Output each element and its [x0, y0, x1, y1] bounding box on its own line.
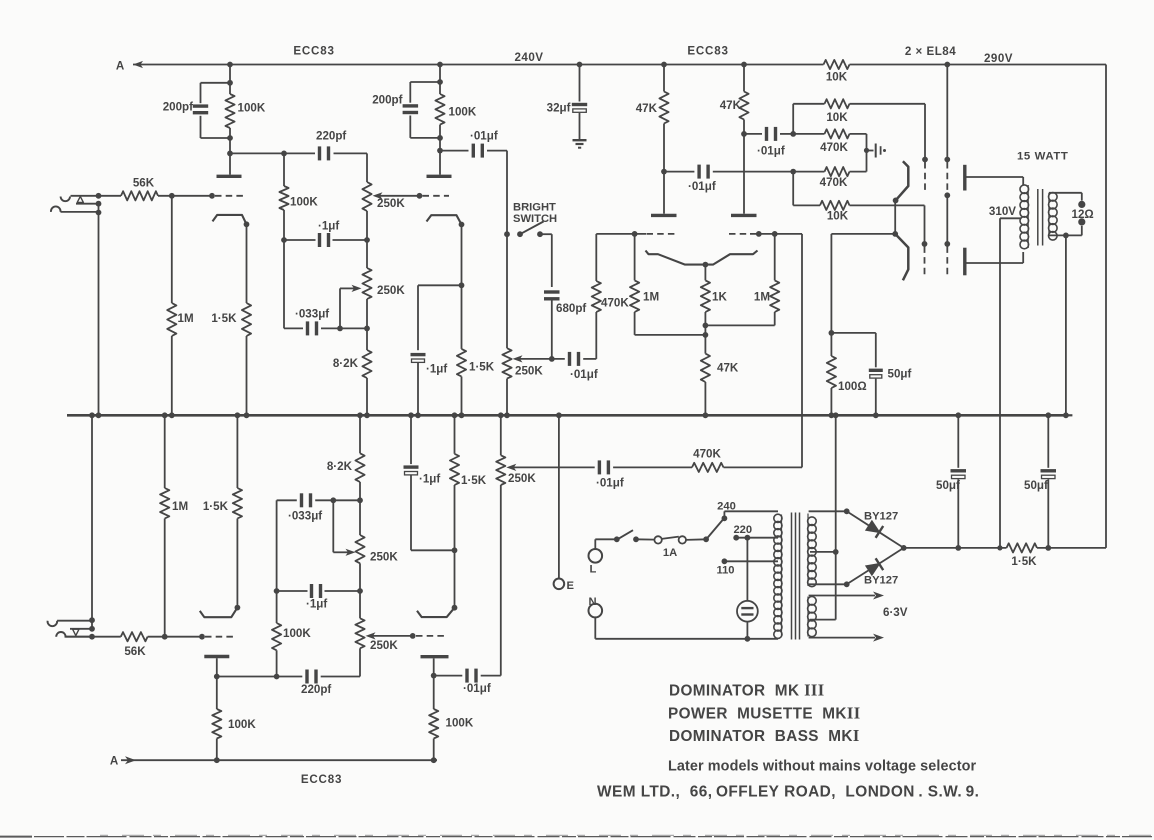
wire screen supply — [946, 65, 948, 159]
svg-text:310V: 310V — [989, 205, 1016, 218]
resistor 10K (HT dropper) — [824, 60, 850, 69]
wire heater centre tap — [810, 619, 836, 621]
svg-text:·01μf: ·01μf — [463, 682, 491, 695]
wire B2 drop to 10K grid2 — [792, 172, 794, 206]
wire primary top 240 tap — [724, 510, 778, 512]
junction 1.5K V2a at rail — [459, 412, 465, 418]
wire .033 to pot lower — [333, 499, 360, 501]
svg-text:·01μf: ·01μf — [570, 368, 598, 381]
wire 56K to grid lower — [148, 636, 202, 638]
svg-text:100Ω: 100Ω — [838, 380, 867, 393]
wire V1b anode lead — [216, 658, 218, 676]
junction HT winding bottom — [844, 581, 850, 587]
wire heater bottom 6.3V — [809, 637, 875, 639]
wire fuse to selector — [686, 538, 706, 541]
wire OT secondary top — [1049, 192, 1082, 194]
svg-text:A: A — [110, 755, 119, 768]
junction rail / earth lead — [556, 412, 562, 418]
jack J1 shorting contact (triangle) — [77, 196, 83, 202]
wire J2 ground rise — [91, 415, 93, 629]
wire bottom A rail — [121, 759, 437, 761]
capacitor 220pf (top) — [318, 146, 321, 160]
wire EL84#2 anode to OT — [965, 262, 1023, 264]
wire J1 ground drop — [98, 204, 100, 416]
pot wiper arrow 250K treble — [373, 192, 383, 199]
svg-text:8·2K: 8·2K — [327, 460, 353, 473]
resistor 100Ω (EL84 cathode) — [830, 333, 832, 356]
svg-text:250K: 250K — [508, 472, 536, 485]
junction 1M lower at rail — [162, 412, 168, 418]
wire V2a anode lead — [439, 151, 441, 175]
wire 1M left bottom — [635, 334, 706, 336]
wire .033 to 8.2K — [340, 327, 367, 329]
svg-text:10K: 10K — [826, 111, 848, 124]
junction V1 anode node — [227, 151, 233, 157]
junction top rail / V2a plate load — [437, 62, 443, 68]
junction bright switch right — [537, 231, 543, 237]
wire cathode net corner lower — [411, 549, 455, 551]
junction 310V feed — [997, 545, 1002, 550]
junction cathode net top — [459, 282, 465, 288]
inductor mains heater secondary — [808, 597, 817, 606]
junction 100K / .1uf — [281, 237, 287, 243]
junction bright switch left — [504, 231, 510, 237]
potentiometer 250K (top volume) — [506, 234, 508, 348]
wire V2a plate load top bar — [410, 81, 440, 83]
resistor 100K (V2b plate) — [433, 676, 435, 709]
pot wiper arrow lower treble — [366, 632, 376, 639]
wire L to switch — [594, 539, 596, 549]
wire top HT rail 240V — [133, 64, 824, 66]
wire bass wiper lower — [332, 500, 334, 552]
capacitor 50μf (cathode bypass) — [869, 369, 883, 372]
svg-text:240V: 240V — [514, 51, 543, 64]
wire smoothing to 290V edge — [1037, 547, 1106, 549]
junction V1 load top bar — [227, 80, 233, 86]
resistor 1M (lower) — [164, 415, 166, 488]
svg-text:100K: 100K — [449, 106, 477, 119]
capacitor 680pf — [544, 290, 560, 293]
tube EL84#2 cathode — [895, 234, 908, 280]
junction V2b cathode — [452, 605, 458, 611]
tube V3b grid (dashed) — [729, 233, 750, 235]
junction PI tail at rail — [703, 412, 709, 418]
tube V3b cathode — [705, 251, 757, 265]
tube EL84#2 screen (dashed) — [944, 241, 950, 247]
potentiometer 250K (lower bass) — [359, 500, 361, 535]
junction 680pf / wiper line — [549, 356, 555, 362]
svg-text:15 WATT: 15 WATT — [1017, 151, 1068, 163]
tube EL84#1 screen (dashed) — [944, 157, 950, 163]
capacitor ·1μf (lower tone) — [277, 590, 308, 592]
svg-text:1·5K: 1·5K — [211, 312, 237, 325]
svg-text:100K: 100K — [290, 196, 318, 209]
junction HT CT ground — [833, 549, 839, 555]
svg-text:100K: 100K — [228, 718, 256, 731]
tube V2b cathode — [417, 608, 455, 617]
terminal speaker - — [1078, 218, 1085, 225]
junction 50uf#2 bottom — [955, 545, 961, 551]
junction top rail / 47K V3b — [741, 62, 747, 68]
resistor 8·2K (lower) — [359, 415, 361, 453]
junction rail end (OT tap) — [1063, 412, 1069, 418]
junction volume pot top at rail — [504, 412, 510, 418]
capacitor 50μf (reservoir) — [957, 415, 959, 468]
wire common cathode link — [894, 200, 896, 234]
svg-text:47K: 47K — [720, 99, 742, 112]
svg-text:1·5K: 1·5K — [1011, 555, 1037, 568]
wire 680pf to wiper line — [551, 299, 553, 359]
tube V1b anode — [204, 655, 229, 658]
junction .1uf cathode cap at rail — [415, 412, 421, 418]
svg-text:·01μf: ·01μf — [688, 180, 716, 193]
resistor 470K (EL84#2 grid leak) — [793, 171, 824, 173]
svg-text:DOMINATOR MK III: DOMINATOR MK III — [669, 681, 825, 700]
tube EL84#2 anode — [963, 248, 966, 276]
arrowhead node A top — [133, 61, 143, 68]
svg-text:·01μf: ·01μf — [470, 130, 498, 143]
wire V2a plate load bottom bar — [410, 137, 440, 139]
lamp neon indicator — [746, 538, 748, 601]
junction J1 tip — [96, 193, 102, 199]
switch mains — [614, 536, 620, 542]
pot wiper arrow lower volume — [506, 464, 516, 471]
resistor 100K (V2a grid, top) — [283, 153, 285, 186]
svg-text:·1μf: ·1μf — [306, 598, 327, 611]
junction V2b grid — [410, 633, 416, 639]
resistor 1·5K (V1b cathode) — [236, 415, 238, 488]
junction V1 cathode — [244, 221, 250, 227]
terminal speaker + — [1078, 201, 1085, 208]
tube V2a anode — [427, 175, 452, 178]
svg-text:56K: 56K — [124, 645, 146, 658]
pot wiper arrow 250K bass — [352, 285, 362, 292]
junction 1K bottom — [703, 323, 709, 329]
svg-text:8·2K: 8·2K — [333, 357, 359, 370]
tube V1 anode — [217, 175, 242, 178]
svg-text:L: L — [590, 564, 597, 576]
jack J2 sleeve hook — [48, 621, 58, 626]
svg-text:50μf: 50μf — [936, 479, 960, 492]
capacitor ·01μf (NFB) — [613, 466, 692, 468]
wire 10K grid2 to EL84#2 grid — [850, 204, 925, 206]
tube EL84#1 anode — [963, 165, 966, 191]
junction rail / 1.5K V2b — [452, 412, 458, 418]
wire J2 sleeve line — [57, 620, 92, 622]
wire EL84#1 anode to OT — [965, 176, 1023, 178]
resistor 1·5K (V2a cathode) — [461, 285, 463, 349]
wire screen link — [946, 195, 948, 242]
svg-text:BRIGHT: BRIGHT — [513, 201, 556, 213]
capacitor ·01μf (V2b coupling) — [434, 675, 463, 677]
svg-text:BY127: BY127 — [864, 575, 898, 587]
svg-text:WEM LTD., 66, OFFLEY ROAD, L: WEM LTD., 66, OFFLEY ROAD, LONDON . S.W.… — [597, 784, 979, 801]
junction 56K / 1M — [169, 193, 175, 199]
junction 1.5K at rail — [244, 412, 250, 418]
svg-text:250K: 250K — [377, 284, 405, 297]
fuse 1A — [654, 536, 661, 543]
tube EL84#1 grid (dashed) — [922, 157, 928, 163]
junction J1 at ground rail — [96, 412, 102, 418]
svg-text:Later models without mains vol: Later models without mains voltage selec… — [668, 759, 976, 775]
junction coupling node B1 — [790, 131, 796, 137]
svg-text:32μf: 32μf — [547, 102, 571, 115]
junction coupling node B2 — [790, 169, 796, 175]
resistor 100K (V1b plate) — [216, 677, 218, 710]
junction rail / 50uf#2 — [955, 412, 961, 418]
junction BY127 output — [901, 545, 907, 551]
tube V2b anode — [421, 655, 449, 658]
capacitor ·01μf (V2a coupling) — [440, 150, 469, 152]
node 240 tap — [722, 515, 728, 521]
wire NFB corner — [724, 466, 803, 468]
svg-text:ECC83: ECC83 — [687, 45, 728, 58]
capacitor 32μf (HT filter) — [579, 65, 581, 102]
wire V2a cathode drop — [461, 225, 463, 286]
wire 470K leaks junction drop — [866, 134, 868, 172]
terminal E (earth) — [554, 579, 565, 590]
wire 290V right edge drop — [1105, 65, 1107, 548]
svg-text:470K: 470K — [693, 448, 721, 461]
capacitor C 200pf (V1) — [200, 83, 202, 103]
svg-text:250K: 250K — [377, 197, 405, 210]
resistor 47K (V3a plate) — [663, 65, 665, 92]
tube V1b grid (dashed) — [205, 636, 236, 638]
resistor 1M (PI right) — [774, 234, 776, 281]
tube V3a grid (dashed) — [647, 233, 678, 235]
svg-text:220pf: 220pf — [316, 130, 346, 143]
diode BY127 #1 — [847, 511, 904, 548]
svg-text:ECC83: ECC83 — [301, 773, 342, 786]
svg-text:2 × EL84: 2 × EL84 — [905, 45, 956, 58]
resistor 1·5K (HT smoothing) — [1007, 543, 1038, 552]
junction V1 grid — [209, 193, 215, 199]
transformer OT core — [1037, 189, 1039, 246]
svg-text:BY127: BY127 — [864, 511, 898, 523]
wire OT centre tap 310V — [1000, 217, 1021, 219]
wire cathode to bias net — [831, 233, 895, 235]
svg-text:6·3V: 6·3V — [883, 606, 908, 619]
svg-text:470K: 470K — [820, 176, 848, 189]
svg-text:200pf: 200pf — [372, 94, 402, 107]
wire PI grid line — [596, 233, 646, 235]
tube V1 cathode — [213, 215, 247, 224]
junction J2 tip — [89, 634, 95, 640]
tube EL84#1 cathode — [896, 161, 909, 200]
svg-text:10K: 10K — [826, 71, 848, 84]
wire J1 contact line — [76, 203, 99, 205]
wire bias to 50uf — [831, 332, 875, 334]
svg-text:N: N — [589, 596, 597, 608]
junction top rail / 47K V3a — [661, 62, 667, 68]
node 110 tap — [722, 558, 728, 564]
junction J1 contact — [96, 201, 102, 207]
resistor 470K (NFB) — [692, 463, 724, 472]
resistor 470K (PI grid, vertical) — [595, 312, 597, 359]
svg-text:1M: 1M — [172, 500, 188, 513]
junction V3b grid wire — [756, 231, 762, 237]
junction J2 sleeve — [89, 617, 95, 623]
resistor 470K (EL84#1 grid leak) — [793, 133, 824, 135]
junction V1b anode node — [214, 674, 220, 680]
junction .033uf / bass wiper — [337, 326, 343, 332]
potentiometer 250K (top bass) — [366, 240, 368, 268]
svg-text:100K: 100K — [446, 717, 474, 730]
resistor 100K (V1 plate) — [225, 94, 234, 128]
svg-text:1M: 1M — [178, 312, 194, 325]
junction rail / 50uf#3 — [1045, 412, 1051, 418]
svg-text:50μf: 50μf — [1024, 479, 1048, 492]
svg-text:·01μf: ·01μf — [596, 477, 624, 490]
svg-text:SWITCH: SWITCH — [513, 213, 557, 225]
capacitor ·1μf (V2a cathode) — [411, 353, 426, 356]
inductor mains HT secondary — [808, 517, 817, 526]
ground chassis (32uf) — [579, 113, 581, 140]
capacitor ·033μf (top) — [284, 327, 303, 329]
resistor 8·2K (top) — [366, 328, 368, 350]
wire OT secondary bottom — [1049, 234, 1082, 236]
wire V1 plate load bottom bar — [201, 137, 231, 139]
svg-text:47K: 47K — [717, 362, 739, 375]
junction 100R at rail — [829, 412, 835, 418]
svg-text:220: 220 — [733, 524, 752, 536]
resistor 10K (EL84#2 grid stopper) — [820, 201, 850, 210]
svg-text:10K: 10K — [827, 210, 849, 223]
tube V1b cathode — [200, 608, 238, 618]
wire J2 contact line — [70, 628, 92, 630]
tube V3a cathode — [646, 251, 706, 265]
junction lower .1uf left — [274, 588, 280, 594]
jack J1 tip hook — [61, 197, 70, 202]
wire HT centre tap — [810, 551, 836, 553]
svg-text:56K: 56K — [133, 177, 155, 190]
junction 220 / neon — [745, 535, 751, 541]
junction 50uf cathode at rail — [873, 412, 879, 418]
wire V1b anode line — [217, 676, 302, 678]
resistor 100K (V2a plate) — [435, 94, 444, 125]
junction V2a grid — [417, 193, 423, 199]
resistor 1·5K (V1 cathode) — [246, 224, 248, 303]
wire HT winding bottom lead — [809, 583, 847, 585]
wire bass wiper to .033uf — [339, 288, 341, 328]
wire coupling to bright switch — [506, 151, 508, 235]
svg-text:POWER MUSETTE MKII: POWER MUSETTE MKII — [668, 704, 861, 723]
capacitor ·01μf (V3b coupling) — [744, 133, 762, 135]
junction lower .1uf right — [357, 588, 363, 594]
junction treble pot / .1uf — [364, 237, 370, 243]
svg-text:·033μf: ·033μf — [295, 308, 329, 321]
svg-text:1A: 1A — [663, 547, 677, 559]
svg-text:E: E — [567, 580, 575, 592]
capacitor ·1μf (top tone) — [284, 239, 316, 241]
capacitor ·033μf (lower) — [277, 499, 297, 501]
svg-text:1·5K: 1·5K — [469, 361, 495, 374]
svg-text:250K: 250K — [370, 639, 398, 652]
wire main ground rail — [67, 414, 1066, 417]
svg-text:47K: 47K — [636, 102, 658, 115]
svg-text:1M: 1M — [754, 291, 770, 304]
resistor 10K (EL84#1 grid stopper) — [825, 99, 850, 108]
junction J2 contact — [89, 626, 95, 632]
wire V3b anode lead — [743, 134, 745, 214]
junction V1b plate at A rail — [214, 757, 220, 763]
wire HT output line — [904, 547, 1007, 549]
junction HT winding top — [844, 508, 850, 514]
capacitor ·01μf (V3a coupling) — [664, 171, 694, 173]
resistor 47K (PI tail) — [704, 325, 706, 353]
diode BY127 #2 — [847, 548, 904, 584]
svg-text:ECC83: ECC83 — [293, 45, 334, 58]
svg-text:1M: 1M — [643, 291, 659, 304]
pot wiper arrow lower bass — [346, 549, 356, 556]
wire HT winding top lead — [809, 510, 847, 512]
switch BRIGHT lever — [520, 222, 544, 235]
junction screen rail top — [944, 62, 950, 68]
tube V3b anode — [731, 214, 757, 217]
tube V1 grid (dashed) — [215, 195, 245, 197]
svg-text:·1μf: ·1μf — [318, 220, 339, 233]
capacitor ·1μf (V2b cathode) — [410, 415, 412, 464]
jack J2 tip hook — [56, 632, 65, 637]
resistor 47K (V3b plate) — [743, 65, 745, 92]
svg-text:250K: 250K — [370, 551, 398, 564]
svg-text:680pf: 680pf — [556, 302, 586, 315]
svg-text:200pf: 200pf — [163, 101, 193, 114]
svg-text:220pf: 220pf — [301, 683, 331, 696]
resistor 56K (top input) — [121, 191, 158, 200]
svg-text:·01μf: ·01μf — [757, 145, 785, 158]
wire J1 sleeve line — [61, 211, 99, 213]
svg-text:250K: 250K — [515, 365, 543, 378]
potentiometer 250K (top treble) — [366, 153, 368, 182]
wire bright switch to 680pf — [540, 233, 552, 235]
svg-text:240: 240 — [717, 501, 736, 513]
junction V2a anode node — [437, 148, 443, 154]
junction EL84 cathodes — [892, 231, 898, 237]
junction screen mid — [944, 192, 950, 198]
capacitor C 200pf (V2a) — [409, 82, 411, 103]
tube V2b grid (dashed) — [416, 635, 448, 637]
junction J1 sleeve — [96, 210, 102, 216]
svg-text:100K: 100K — [283, 627, 311, 640]
junction top rail / 32uf — [577, 62, 583, 68]
junction rail / .1uf lower — [408, 412, 414, 418]
junction heater CT at rail — [833, 412, 839, 418]
junction rail / 8.2K lower — [357, 412, 363, 418]
wire 100K to .033uf — [283, 240, 285, 328]
svg-text:1K: 1K — [712, 291, 727, 304]
svg-text:1·5K: 1·5K — [461, 474, 487, 487]
wire V3b grid to 1M right — [750, 233, 802, 235]
junction 8.2K at rail — [364, 412, 370, 418]
junction 1M at rail — [169, 412, 175, 418]
wire J2 tip link — [65, 636, 93, 638]
resistor 1K (PI cathode) — [704, 265, 706, 281]
junction V1b grid — [199, 634, 205, 640]
wire V1 anode to tone stack — [230, 152, 315, 154]
pot wiper arrow 250K volume top — [513, 355, 523, 362]
tube V2a cathode — [427, 215, 462, 224]
wire 10K grid1 to EL84#1 grid — [850, 103, 926, 105]
svg-text:110: 110 — [716, 565, 734, 577]
switch voltage selector lever — [703, 536, 709, 542]
inductor OT secondary — [1049, 193, 1058, 202]
svg-text:470K: 470K — [820, 141, 848, 154]
tube EL84#2 grid (dashed) — [922, 241, 928, 247]
junction J2 at ground rail — [89, 412, 95, 418]
arrowhead node A bottom — [125, 756, 136, 764]
wire V1 anode lead — [229, 153, 231, 174]
